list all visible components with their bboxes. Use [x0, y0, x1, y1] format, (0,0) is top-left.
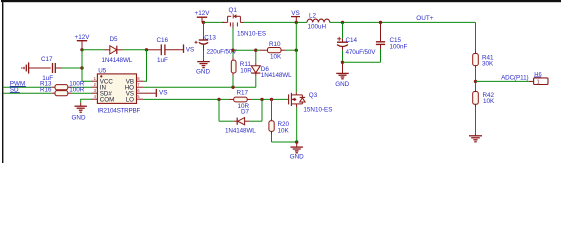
svg-text:D5: D5: [110, 36, 119, 43]
svg-text:30K: 30K: [482, 61, 494, 68]
svg-text:1N4148WL: 1N4148WL: [102, 57, 133, 64]
svg-text:R17: R17: [237, 89, 249, 96]
svg-text:L2: L2: [309, 13, 317, 20]
svg-text:+12V: +12V: [75, 34, 91, 41]
svg-text:VS: VS: [186, 47, 195, 54]
svg-text:100uH: 100uH: [308, 23, 327, 30]
svg-text:C13: C13: [204, 35, 216, 42]
svg-text:C16: C16: [157, 37, 169, 44]
svg-text:GND: GND: [196, 68, 210, 75]
svg-text:R16: R16: [40, 87, 52, 94]
svg-text:D7: D7: [241, 109, 250, 116]
svg-text:U5: U5: [98, 68, 107, 75]
svg-text:+12V: +12V: [195, 10, 211, 17]
svg-text:100nF: 100nF: [390, 43, 408, 50]
svg-text:OUT+: OUT+: [416, 15, 433, 22]
svg-text:COM: COM: [100, 97, 114, 104]
svg-text:R10: R10: [269, 41, 281, 48]
svg-text:GND: GND: [72, 114, 86, 121]
svg-text:C17: C17: [41, 56, 53, 63]
svg-text:IR2104STRPBF: IR2104STRPBF: [98, 108, 141, 115]
svg-text:Q1: Q1: [229, 7, 238, 14]
svg-text:15N10-ES: 15N10-ES: [303, 107, 332, 114]
svg-text:ADC(P11): ADC(P11): [501, 75, 528, 82]
svg-text:15N10-ES: 15N10-ES: [237, 30, 266, 37]
svg-text:10K: 10K: [483, 98, 495, 105]
svg-text:10K: 10K: [270, 54, 282, 61]
svg-text:GND: GND: [335, 81, 349, 88]
svg-text:C14: C14: [346, 37, 358, 44]
svg-text:1N4148WL: 1N4148WL: [261, 72, 292, 79]
svg-text:470uF/50V: 470uF/50V: [346, 49, 377, 56]
svg-text:GND: GND: [290, 153, 304, 160]
svg-text:10K: 10K: [278, 127, 290, 134]
svg-text:10R: 10R: [240, 67, 252, 74]
svg-text:Q3: Q3: [309, 92, 318, 99]
svg-text:1uF: 1uF: [157, 57, 168, 64]
svg-text:VS: VS: [159, 89, 168, 96]
svg-text:100R: 100R: [69, 87, 85, 94]
svg-text:1: 1: [537, 79, 540, 85]
svg-text:LO: LO: [126, 97, 134, 104]
svg-text:1N4148WL: 1N4148WL: [225, 127, 256, 134]
